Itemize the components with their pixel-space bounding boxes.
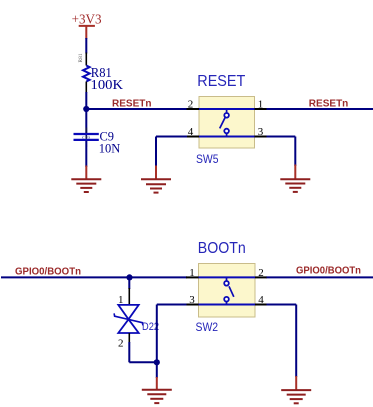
svg-text:SW2: SW2: [196, 320, 219, 334]
wire SW5 pin1 to right edge: [267, 108, 373, 110]
svg-text:R81: R81: [78, 53, 84, 62]
svg-text:2: 2: [188, 99, 194, 111]
wire SW2 pin2 to right edge: [267, 276, 373, 278]
wire SW2 pin4 to ground: [267, 305, 297, 378]
pin 3: [186, 304, 199, 306]
pin 1: [255, 108, 268, 110]
resistor R81: [78, 53, 123, 94]
wire D22 to node C: [129, 342, 157, 362]
switch internal: [199, 276, 256, 278]
svg-text:RESETn: RESETn: [112, 98, 152, 110]
pin 4: [255, 304, 267, 306]
ground (SW5 pin3): [280, 165, 310, 192]
svg-text:3: 3: [189, 294, 195, 306]
diode D22: [114, 288, 159, 349]
svg-text:3: 3: [258, 126, 264, 138]
wire node B to D22: [128, 277, 130, 289]
svg-text:4: 4: [258, 294, 264, 306]
svg-text:RESET: RESET: [197, 73, 245, 90]
svg-text:RESETn: RESETn: [309, 98, 349, 110]
wire SW5 pin3 to ground: [267, 137, 296, 167]
wire SW2 pin3 to node C: [157, 305, 187, 379]
pin 3: [255, 136, 268, 138]
svg-text:2: 2: [118, 337, 124, 349]
ground (node C): [142, 377, 172, 403]
svg-text:100K: 100K: [91, 77, 124, 92]
svg-text:BOOTn: BOOTn: [198, 240, 246, 257]
svg-text:GPIO0/BOOTn: GPIO0/BOOTn: [296, 265, 361, 277]
pin 1: [186, 276, 199, 278]
pin 2: [187, 108, 200, 110]
wire SW5 pin4 to ground: [156, 137, 187, 167]
ground (SW5 pin4): [141, 166, 171, 193]
svg-text:1: 1: [189, 267, 195, 279]
switch internal: [199, 108, 255, 110]
wire left edge to SW2 pin1: [1, 276, 187, 278]
switch SW2: [186, 240, 267, 334]
pin 4: [187, 136, 200, 138]
junction node B: [126, 274, 132, 280]
capacitor C9: [74, 128, 121, 156]
svg-text:SW5: SW5: [196, 152, 219, 166]
wire node A to C9: [85, 109, 87, 134]
power +3V3: [72, 12, 102, 39]
ground (under C9): [71, 166, 101, 193]
svg-text:C9: C9: [82, 135, 91, 140]
junction node C: [154, 359, 160, 365]
wire R81 to node A: [85, 92, 87, 109]
ground (SW2 pin4): [281, 376, 311, 403]
switch SW5: [187, 73, 268, 166]
wire node A to SW5 pin2: [86, 108, 187, 110]
wire C9 to ground: [85, 141, 87, 168]
wire power to R81: [85, 38, 87, 54]
pin 2: [255, 276, 267, 278]
svg-text:1: 1: [258, 99, 264, 111]
svg-text:10N: 10N: [99, 140, 121, 155]
svg-text:GPIO0/BOOTn: GPIO0/BOOTn: [15, 265, 81, 277]
svg-text:2: 2: [258, 267, 264, 279]
junction node A: [83, 106, 89, 112]
svg-text:4: 4: [188, 126, 194, 138]
